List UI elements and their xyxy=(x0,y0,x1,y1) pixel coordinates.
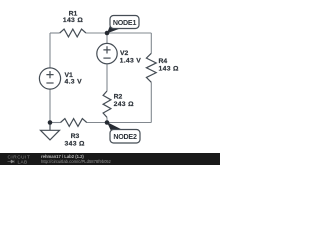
wire top rail: node at left corner to right rail xyxy=(50,32,60,34)
node NODE2 callout tail xyxy=(107,122,123,131)
wire bottom rail left (ground junction to R3) xyxy=(50,122,61,124)
wire bottom rail right (R3 to node2 to right corner) xyxy=(87,122,152,124)
svg-text:R3: R3 xyxy=(71,133,80,140)
svg-text:R2: R2 xyxy=(114,94,123,101)
wire V1 bottom to ground junction xyxy=(49,89,51,122)
svg-text:4.3 V: 4.3 V xyxy=(65,78,83,85)
svg-text:1.43 V: 1.43 V xyxy=(120,58,142,65)
svg-text:NODE2: NODE2 xyxy=(113,133,137,141)
node NODE1 callout tail xyxy=(107,25,121,33)
svg-text:http://circuitlab.com/c/PLd587: http://circuitlab.com/c/PLd5878f9b05z xyxy=(41,159,111,164)
node NODE1 label box xyxy=(110,16,139,29)
wire right rail lower (R4 bottom to bottom corner) xyxy=(150,82,152,122)
svg-text:143 Ω: 143 Ω xyxy=(63,17,84,24)
resistor R3 (horizontal, 343 ohm) xyxy=(61,119,87,127)
svg-text:R4: R4 xyxy=(159,58,168,65)
svg-text:143 Ω: 143 Ω xyxy=(159,65,180,72)
wire right rail upper (top corner to R4 top) xyxy=(150,33,152,53)
svg-text:243 Ω: 243 Ω xyxy=(114,101,135,108)
svg-text:343 Ω: 343 Ω xyxy=(65,140,86,147)
wire R2 bottom to node2 xyxy=(106,117,108,122)
resistor R2 (vertical, 243 ohm) xyxy=(103,91,111,117)
resistor R4 (vertical, 143 ohm) xyxy=(146,53,156,82)
wire left rail (top-left corner down to V1 top) xyxy=(49,33,51,68)
wire V2 bottom to R2 top xyxy=(106,64,108,91)
resistor R1 (horizontal, 143 ohm) xyxy=(60,29,86,37)
svg-text:NODE1: NODE1 xyxy=(113,19,137,27)
node NODE2 junction dot xyxy=(105,120,110,125)
watermark bar xyxy=(0,153,220,165)
voltage source V1 4.3 V xyxy=(39,68,60,89)
wire top rail right of R1 xyxy=(86,32,151,34)
svg-text:LAB: LAB xyxy=(18,160,28,165)
ground junction dot xyxy=(48,120,53,125)
wire node1 to V2 top xyxy=(106,33,108,44)
svg-text:V2: V2 xyxy=(120,50,129,57)
node NODE2 label box xyxy=(110,130,140,144)
voltage source V2 1.43 V xyxy=(97,43,117,63)
node NODE1 junction dot xyxy=(105,31,110,36)
ground xyxy=(49,123,51,131)
